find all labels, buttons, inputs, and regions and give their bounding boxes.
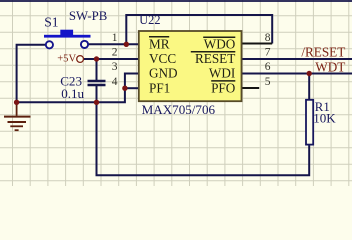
svg-text:S1: S1 — [44, 14, 58, 29]
switch S1 SW-PB — [44, 30, 91, 49]
svg-text:5: 5 — [265, 76, 271, 88]
sheet background — [0, 0, 352, 186]
wire: +5V to pin 2 (VCC) — [83, 58, 139, 60]
wire: pin 4 (PF1) stub to vertical — [125, 87, 139, 89]
wire: C23 top branch from +5V line — [96, 59, 98, 80]
svg-text:VCC: VCC — [149, 51, 176, 66]
switch bar — [44, 35, 91, 38]
pin 8 stub — [242, 43, 273, 45]
svg-text:U22: U22 — [139, 13, 160, 27]
svg-text:7: 7 — [265, 47, 271, 59]
wire: bottom bus from ground rail to R1 bottom — [97, 102, 310, 175]
node junction at pin1 / switch — [124, 42, 129, 47]
svg-text:4: 4 — [112, 76, 118, 88]
IC U22 MAX705/706 body — [139, 31, 242, 101]
sheet grid — [0, 0, 352, 186]
switch right terminal circle — [81, 41, 88, 48]
svg-text:SW-PB: SW-PB — [69, 9, 107, 23]
wire: ground rail horizontal, up to pin3 GND — [17, 74, 140, 103]
top sheet border line — [0, 0, 352, 2]
svg-text:MAX705/706: MAX705/706 — [142, 102, 216, 117]
svg-text:1: 1 — [112, 32, 118, 44]
wire: pin 6 WDT to right edge — [242, 73, 352, 75]
resistor R1 — [306, 100, 313, 145]
node junction at +5V / C23 — [94, 56, 99, 61]
wire: pin 7 /RESET to right edge — [242, 58, 352, 60]
svg-text:2: 2 — [112, 47, 118, 59]
svg-text:GND: GND — [149, 66, 178, 81]
svg-text:PFO: PFO — [211, 80, 235, 95]
svg-text:10K: 10K — [313, 111, 336, 126]
svg-text:8: 8 — [265, 32, 271, 44]
svg-text:MR: MR — [149, 37, 170, 52]
svg-text:WDI: WDI — [209, 66, 235, 81]
svg-text:6: 6 — [265, 61, 271, 73]
svg-text:3: 3 — [112, 61, 118, 73]
power port +5V — [57, 53, 83, 64]
switch left terminal circle — [46, 41, 53, 48]
wire: R1 top lead from WDT line — [308, 74, 310, 100]
svg-text:/RESET: /RESET — [301, 45, 345, 60]
capacitor C23 plates — [88, 81, 106, 85]
pin 5 stub — [242, 87, 260, 89]
node junction at ground rail left — [14, 100, 19, 105]
ground — [4, 102, 31, 130]
wire: switch left terminal to ground rail — [17, 45, 46, 103]
switch button bump — [60, 30, 73, 35]
svg-text:+5V: +5V — [57, 53, 76, 64]
wire: top loop from pin1 junction over IC to pin8 — [126, 15, 272, 44]
wire: switch right terminal to pin 1 (MR) — [88, 43, 139, 45]
svg-text:PF1: PF1 — [149, 80, 170, 95]
svg-text:RESET: RESET — [195, 51, 235, 66]
svg-text:WDT: WDT — [315, 60, 345, 75]
svg-text:0.1u: 0.1u — [61, 86, 84, 101]
node junction at pin4 vertical — [122, 86, 127, 91]
svg-text:WDO: WDO — [204, 37, 236, 52]
node junction at WDT / R1 — [307, 71, 312, 76]
node junction at C23 bottom / ground rail — [94, 100, 99, 105]
wire: C23 bottom to ground rail — [96, 86, 98, 103]
